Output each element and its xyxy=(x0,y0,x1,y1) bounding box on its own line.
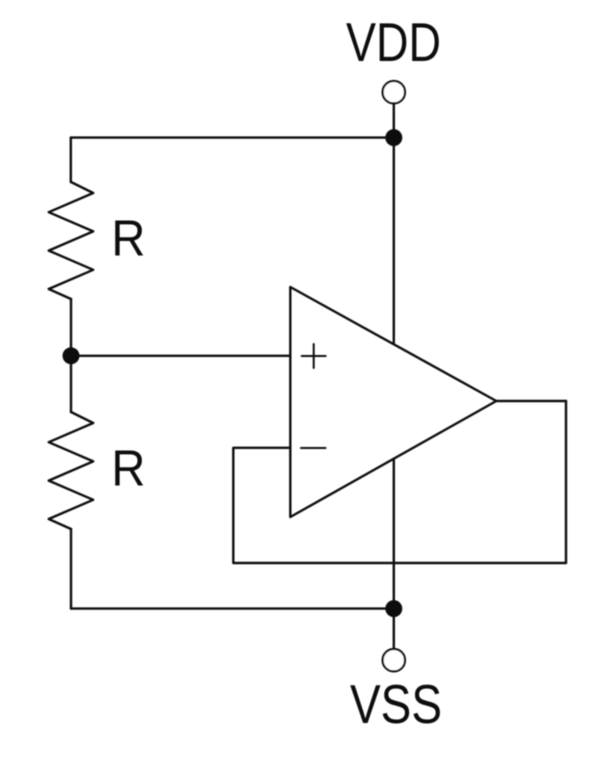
svg-text:VSS: VSS xyxy=(350,674,442,735)
svg-text:VDD: VDD xyxy=(346,12,441,73)
svg-text:R: R xyxy=(111,440,145,497)
svg-text:R: R xyxy=(111,210,145,267)
